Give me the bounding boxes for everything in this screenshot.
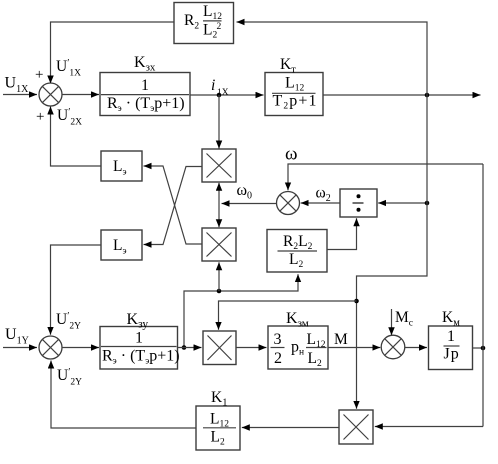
block K3Y transfer 1/(R*(Tp+1)): [100, 327, 178, 370]
wire divider right input from feedback line: [378, 202, 427, 204]
svg-text:1X: 1X: [217, 88, 229, 98]
wire line2 psi2x tap to bottom-middle multiplier: [219, 301, 357, 330]
svg-text:1: 1: [135, 330, 143, 347]
wire U1X input: [3, 94, 37, 96]
svg-text:Kм: Kм: [442, 309, 460, 329]
svg-text:U′1X: U′1X: [56, 58, 81, 79]
block lower L3: [101, 230, 142, 260]
wire S4 out to K3Y: [62, 347, 99, 349]
wire lower L3 out down to S4 top: [51, 245, 102, 335]
wire S1 to K3X: [62, 94, 99, 96]
svg-text:ω2: ω2: [316, 185, 331, 205]
summing junction S1 (top, U1X): [39, 83, 62, 106]
svg-text:ω: ω: [285, 144, 298, 165]
svg-text:L2: L2: [289, 251, 303, 270]
wire K3Y out to bottom-middle multiplier: [178, 347, 202, 349]
wire K3X out to KT with node i1X: [190, 94, 264, 96]
wire omega0 from S2 out leftwards: [222, 203, 277, 205]
svg-text:R2L2: R2L2: [283, 233, 313, 252]
svg-text:ω0: ω0: [237, 182, 253, 202]
wire diagonal upper multiplier out to lower L3: [144, 167, 203, 245]
svg-text:Rэ · (Tэp+1): Rэ · (Tэp+1): [102, 348, 180, 367]
wire feedback psi2x up and left into R2 block: [237, 22, 428, 95]
svg-text:2: 2: [217, 22, 222, 32]
svg-text:L12: L12: [203, 3, 222, 22]
svg-text:3: 3: [274, 331, 282, 348]
svg-text:1: 1: [141, 77, 149, 94]
svg-text:L2: L2: [203, 22, 217, 41]
svg-text:1: 1: [447, 328, 455, 345]
block lower multiplier: [202, 228, 236, 261]
wire S1 bottom input from upper L3 block: [51, 107, 102, 167]
wire KM out to right vertical: [473, 347, 484, 349]
node i1X junction dot: [217, 93, 222, 98]
wire line1 i1Y tap to R2L2/L2 bottom input: [184, 274, 298, 347]
node junction dot omega: [481, 346, 486, 351]
wire i1X down to upper multiplier: [218, 95, 220, 149]
block R2L2/L2: [267, 230, 327, 273]
block K3X transfer 1/(R*(Tp+1)): [100, 73, 190, 116]
wire Mc input down into S3: [391, 309, 393, 335]
svg-text:U1X: U1X: [5, 75, 30, 96]
svg-text:Kзх: Kзх: [134, 54, 156, 74]
node psi2x junction dot: [425, 93, 430, 98]
wire omega0 down into lower multiplier: [218, 204, 220, 228]
block KT transfer L12/(T2p+1): [265, 73, 323, 116]
node junction dot i1Y tap: [182, 345, 187, 350]
block KM transfer 1/Jp: [429, 326, 473, 370]
wire R2 block out to S1 top: [51, 22, 175, 84]
wire omega0 up into upper multiplier: [218, 183, 220, 204]
summing junction S2 (omega): [277, 192, 300, 215]
summing junction S4 (bottom, U1Y): [39, 336, 62, 359]
block bottom-middle multiplier: [203, 331, 236, 365]
svg-text:U′2Y: U′2Y: [56, 311, 81, 332]
block K3M transfer (3/2)pn(L12/L2): [268, 326, 328, 369]
wire S3 out to KM block: [405, 347, 427, 349]
wire diagonal lower multiplier out to upper L3: [144, 166, 203, 244]
block R2·L12/L2^2: [174, 3, 234, 44]
svg-text:T2p+1: T2p+1: [273, 93, 318, 112]
svg-text:Kт: Kт: [280, 56, 296, 76]
svg-text:L2: L2: [308, 350, 322, 369]
svg-text:+: +: [36, 109, 44, 125]
wire divider out to S2: [301, 202, 340, 204]
svg-text:Mс: Mс: [395, 309, 413, 329]
svg-text:Lэ: Lэ: [113, 158, 127, 178]
wire R2L2/L2 out up into divider bottom: [327, 218, 357, 249]
svg-text:i: i: [211, 77, 215, 94]
block bottom-right multiplier: [339, 410, 373, 444]
wire omega bottom into bottom-right multiplier: [375, 426, 483, 428]
svg-text:2: 2: [274, 350, 282, 367]
node junction dot at line2 tap: [354, 299, 359, 304]
svg-text:Kзу: Kзу: [127, 311, 149, 331]
svg-text:Lэ: Lэ: [113, 237, 127, 257]
wire KT out to right edge: [323, 94, 481, 96]
svg-text:+: +: [35, 67, 43, 83]
wire K1 out to S4 bottom: [51, 361, 196, 429]
svg-text:L12: L12: [210, 411, 229, 430]
wire M out to S3: [328, 347, 380, 349]
block divider: [340, 189, 377, 217]
svg-text:Kзм: Kзм: [286, 310, 309, 330]
wire omega from right vertical into S2 top: [288, 164, 483, 190]
svg-text:R2: R2: [184, 12, 199, 32]
summing junction S3 (M, Mc): [381, 335, 405, 359]
svg-text:L12: L12: [285, 75, 305, 94]
svg-text:U′2Y: U′2Y: [57, 367, 82, 388]
svg-text:U′2X: U′2X: [57, 107, 82, 128]
svg-text:Rэ · (Tэp+1): Rэ · (Tэp+1): [107, 95, 185, 114]
svg-text:L12: L12: [307, 331, 326, 350]
wire line1 up into lower multiplier bottom: [218, 262, 220, 291]
svg-text:pн: pн: [291, 339, 304, 358]
svg-text:Jp: Jp: [444, 346, 460, 363]
wire main feedback vertical with jog down to bottom-right multiplier: [357, 95, 428, 409]
block upper multiplier: [202, 149, 236, 182]
svg-text:L2: L2: [211, 429, 225, 448]
node junction dot on line1: [217, 289, 222, 294]
svg-text:M: M: [334, 331, 348, 348]
svg-text:U1Y: U1Y: [5, 326, 29, 347]
block upper L3: [101, 151, 142, 181]
block K1 transfer L12/L2: [196, 406, 240, 450]
node junction dot on feedback at divider input: [425, 201, 430, 206]
wire multiplier out to K3M: [236, 347, 267, 349]
wire U1Y input: [3, 347, 37, 349]
svg-text:K1: K1: [211, 389, 227, 409]
wire bottom-right multiplier out to K1: [242, 427, 339, 429]
wire omega right vertical: [482, 164, 484, 427]
